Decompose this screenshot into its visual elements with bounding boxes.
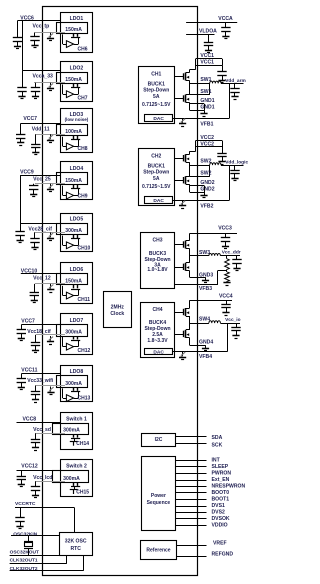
ground arrow row8 xyxy=(50,387,52,392)
svg-text:(low noise): (low noise) xyxy=(65,117,89,122)
output capacitor CH2 xyxy=(234,165,236,170)
svg-text:VCCRTC: VCCRTC xyxy=(15,501,36,507)
svg-text:VFB1: VFB1 xyxy=(200,121,213,127)
high-side FET CH2 xyxy=(174,158,183,160)
svg-text:GND1: GND1 xyxy=(200,98,214,104)
svg-text:Vcc_12: Vcc_12 xyxy=(33,275,51,281)
svg-text:VDDIO: VDDIO xyxy=(212,522,228,528)
pin PWRON xyxy=(176,473,207,475)
svg-text:CH1: CH1 xyxy=(151,72,161,78)
wire Vdd_11 (LDO output) xyxy=(36,134,65,136)
svg-text:VLDOA: VLDOA xyxy=(199,29,217,35)
pin VCCA xyxy=(186,22,237,24)
svg-text:1.0~1.8V: 1.0~1.8V xyxy=(147,267,168,273)
svg-text:0.7125~1.5V: 0.7125~1.5V xyxy=(142,102,171,108)
wire Vcc_sd (LDO output) xyxy=(36,433,66,435)
pin VCC1 b xyxy=(196,65,222,67)
svg-text:VCC8: VCC8 xyxy=(23,416,37,422)
pin VREF xyxy=(176,545,207,547)
wire Vcc_lcd (LDO output) xyxy=(36,481,66,483)
pin REFGND xyxy=(176,556,207,558)
svg-text:Vdd_arm: Vdd_arm xyxy=(225,78,246,84)
svg-text:SW4: SW4 xyxy=(199,316,210,322)
capacitor on VCC11 xyxy=(21,374,23,379)
svg-text:CH8: CH8 xyxy=(78,146,88,152)
2MHz Clock box xyxy=(104,292,132,328)
feedback divider R2 CH3 xyxy=(226,269,228,272)
pin DVS2 xyxy=(176,512,207,514)
svg-text:VCC2: VCC2 xyxy=(200,141,214,147)
low-side FET CH1 xyxy=(174,98,183,100)
capacitor on Vcc33_wifi xyxy=(35,386,37,392)
svg-text:300mA: 300mA xyxy=(63,428,80,434)
svg-text:100mA: 100mA xyxy=(65,129,82,135)
ground arrow VFB4 xyxy=(182,352,184,357)
svg-text:BUCK3: BUCK3 xyxy=(149,251,166,257)
svg-text:DVSOK: DVSOK xyxy=(212,516,230,522)
wire VCC10 xyxy=(21,273,60,275)
svg-text:LDO6: LDO6 xyxy=(70,267,84,273)
svg-text:INT: INT xyxy=(212,457,221,463)
svg-text:300mA: 300mA xyxy=(65,381,82,387)
svg-text:Vcc_io: Vcc_io xyxy=(225,317,241,323)
svg-text:Sequence: Sequence xyxy=(147,500,171,506)
ground of divider CH3 xyxy=(226,281,228,283)
pin SW2 a xyxy=(190,165,210,167)
svg-text:VCC9: VCC9 xyxy=(20,170,34,176)
capacitor on Vdd_11 xyxy=(35,134,37,144)
DAC box CH4 xyxy=(145,349,173,355)
Reference box xyxy=(141,541,177,560)
buck CH4 block xyxy=(141,303,175,358)
svg-text:VCC1: VCC1 xyxy=(200,60,214,66)
svg-text:SW1: SW1 xyxy=(200,89,211,95)
svg-text:Ext_EN: Ext_EN xyxy=(212,477,230,483)
wire VCC6 xyxy=(18,20,61,22)
LDO LDO6 block CH11 xyxy=(61,263,93,304)
pin VFB4 xyxy=(173,351,228,353)
buck CH3 block xyxy=(141,233,175,289)
capacitor on VCCA xyxy=(225,23,227,28)
svg-text:BOOT0: BOOT0 xyxy=(212,490,230,496)
pin SW1 b xyxy=(190,94,210,96)
chip boundary xyxy=(43,7,198,576)
pin SW4 xyxy=(190,323,209,325)
svg-text:300mA: 300mA xyxy=(63,476,80,482)
pin GND1 a xyxy=(190,103,204,105)
LDO LDO1 block CH6 xyxy=(61,13,93,53)
svg-text:5A: 5A xyxy=(153,176,160,182)
wire VCC6 branch to LDO2 xyxy=(23,70,60,72)
ground arrow VFB1 xyxy=(182,118,184,123)
pin VCC1 a xyxy=(196,58,222,60)
ground arrow row7 xyxy=(50,336,52,341)
svg-text:DVS1: DVS1 xyxy=(212,503,225,509)
LDO LDO4 block CH9 xyxy=(61,162,93,200)
output capacitor CH1 xyxy=(234,83,236,88)
wire Vcc33_wifi (LDO output) xyxy=(36,385,66,387)
capacitor on VCC7 xyxy=(20,123,22,134)
VCC internal wiring CH2 xyxy=(189,151,191,154)
svg-text:GND2: GND2 xyxy=(200,180,214,186)
capacitor on Vcc_tp xyxy=(34,33,36,37)
pin GND2 a xyxy=(190,185,204,187)
svg-text:CH10: CH10 xyxy=(78,246,91,252)
capacitor on VLDOA xyxy=(208,34,210,42)
svg-text:LDO8: LDO8 xyxy=(70,369,84,375)
wire VCC8 xyxy=(17,422,61,424)
GND internal wiring CH1 xyxy=(189,103,191,111)
svg-text:GND3: GND3 xyxy=(199,272,213,278)
low-side FET CH4 xyxy=(174,334,183,336)
pin SW3 xyxy=(190,255,209,257)
inductor L1 xyxy=(210,81,221,83)
pin SDA xyxy=(176,436,207,438)
pin VCC4 xyxy=(190,300,232,302)
capacitor on Vcc_lcd xyxy=(35,481,37,486)
GND internal wiring CH2 xyxy=(189,184,191,192)
wire VCC9 branch to LDO5 xyxy=(20,223,60,225)
svg-text:Switch 1: Switch 1 xyxy=(66,417,87,423)
ground arrow row2 xyxy=(50,83,52,88)
pin Ext_EN xyxy=(176,480,207,482)
wire Vcc28_cif (LDO output) xyxy=(34,232,65,234)
capacitor on VCC3 xyxy=(225,233,227,237)
svg-text:BOOT1: BOOT1 xyxy=(212,496,230,502)
Switch 2 block CH15 xyxy=(61,460,93,497)
svg-text:32K OSC: 32K OSC xyxy=(65,539,87,545)
feedback divider R1 CH3 xyxy=(226,256,228,259)
svg-text:LDO1: LDO1 xyxy=(70,16,84,22)
wire Vcc_25 (LDO output) xyxy=(35,183,65,185)
svg-text:VFB4: VFB4 xyxy=(199,354,212,360)
svg-text:LDO7: LDO7 xyxy=(70,318,84,324)
svg-text:5A: 5A xyxy=(153,94,160,100)
LDO LDO7 block CH12 xyxy=(61,314,93,355)
svg-text:VCCA: VCCA xyxy=(218,16,233,22)
pin VFB3 xyxy=(218,270,227,272)
inductor L4 xyxy=(209,321,221,323)
wire VCC9 xyxy=(20,175,60,177)
capacitor on VCC4 xyxy=(226,300,228,304)
svg-text:CH12: CH12 xyxy=(78,348,91,354)
ground GND1 xyxy=(204,104,206,111)
pin DVS1 xyxy=(176,506,207,508)
VCC internal wiring CH1 xyxy=(189,70,191,73)
wire VCC12 xyxy=(17,470,61,472)
inductor L2 xyxy=(210,163,221,165)
svg-text:Vcc28_cif: Vcc28_cif xyxy=(28,226,52,232)
svg-text:CH15: CH15 xyxy=(76,490,89,496)
ground arrow row3 xyxy=(50,134,52,139)
pin NRESPWRON xyxy=(176,486,207,488)
DAC box CH1 xyxy=(145,115,173,122)
svg-text:Vcc_lcd: Vcc_lcd xyxy=(33,475,52,481)
DAC box CH2 xyxy=(145,197,173,204)
pin SW2 b xyxy=(190,176,210,178)
svg-text:CH13: CH13 xyxy=(78,396,91,402)
svg-text:Switch 2: Switch 2 xyxy=(66,464,87,470)
pin VCC2 a xyxy=(196,140,222,142)
ground GND2 xyxy=(204,186,206,193)
pin SCK xyxy=(176,443,207,445)
32K OSC RTC box xyxy=(60,533,93,556)
svg-text:CH4: CH4 xyxy=(152,307,162,313)
svg-text:RTC: RTC xyxy=(70,546,81,552)
svg-text:1.8~3.3V: 1.8~3.3V xyxy=(147,338,168,344)
wire VCC11 xyxy=(21,373,60,375)
wire Vcca_33 (LDO output) xyxy=(34,82,65,84)
svg-text:SLEEP: SLEEP xyxy=(212,464,229,470)
pin VCC2 b xyxy=(196,146,222,148)
buck CH1 block xyxy=(139,67,175,124)
high-side FET CH3 xyxy=(174,244,183,246)
svg-text:SDA: SDA xyxy=(212,435,223,441)
svg-text:LDO5: LDO5 xyxy=(70,217,84,223)
svg-text:DAC: DAC xyxy=(153,349,164,355)
svg-text:150mA: 150mA xyxy=(65,27,82,33)
svg-text:CH2: CH2 xyxy=(151,154,161,160)
pin BOOT1 xyxy=(176,499,207,501)
capacitor on Vcc18_cif xyxy=(35,335,37,342)
pin SLEEP xyxy=(176,466,207,468)
svg-text:Vcc_tp: Vcc_tp xyxy=(33,23,50,29)
capacitor row2 a xyxy=(22,71,24,88)
svg-text:VREF: VREF xyxy=(213,540,227,546)
svg-text:CH14: CH14 xyxy=(76,441,89,447)
high-side FET CH1 xyxy=(174,76,183,78)
pin INT xyxy=(176,460,207,462)
wire VCC6 feed to LDO2 xyxy=(22,21,24,71)
svg-text:Vcc_sd: Vcc_sd xyxy=(33,427,51,433)
wire Vcc18_cif (LDO output) xyxy=(36,334,66,336)
svg-text:150mA: 150mA xyxy=(65,178,82,184)
svg-text:Step-Down: Step-Down xyxy=(143,88,169,94)
svg-text:Vcca_33: Vcca_33 xyxy=(33,74,54,80)
capacitor on VCCRTC xyxy=(20,508,22,518)
svg-text:VCC7: VCC7 xyxy=(21,319,35,325)
svg-text:LDO4: LDO4 xyxy=(70,166,84,172)
svg-text:PWRON: PWRON xyxy=(212,470,232,476)
svg-text:GND2: GND2 xyxy=(200,186,214,192)
pin VFB1 xyxy=(173,118,230,120)
high-side FET CH4 xyxy=(174,312,183,314)
svg-text:BUCK1: BUCK1 xyxy=(148,163,165,169)
wire VCC7 xyxy=(21,123,60,125)
svg-text:VCC7: VCC7 xyxy=(23,116,37,122)
svg-text:VFB2: VFB2 xyxy=(200,203,213,209)
low-side FET CH3 xyxy=(174,267,183,269)
wire VCC7 xyxy=(21,324,60,326)
svg-text:SW2: SW2 xyxy=(200,171,211,177)
ground arrow row5 xyxy=(50,233,52,238)
svg-text:Reference: Reference xyxy=(146,548,170,554)
svg-text:Vdd_logic: Vdd_logic xyxy=(225,160,248,166)
svg-text:VCC2: VCC2 xyxy=(200,135,214,141)
buck CH2 block xyxy=(139,149,175,206)
capacitor on VCC7 row7 xyxy=(21,325,23,330)
svg-text:CH3: CH3 xyxy=(152,237,162,243)
LDO LDO2 block CH7 xyxy=(61,62,93,102)
svg-text:REFGND: REFGND xyxy=(212,551,234,557)
SW internal wiring CH1 xyxy=(189,81,191,95)
low-side FET CH2 xyxy=(174,180,183,182)
svg-text:CH11: CH11 xyxy=(78,297,91,303)
capacitor on VCC1 xyxy=(222,59,224,66)
pin VDDIO xyxy=(176,525,207,527)
capacitor on Vcc_12 xyxy=(34,284,36,292)
svg-text:Power: Power xyxy=(151,493,166,499)
svg-text:150mA: 150mA xyxy=(65,278,82,284)
pin GND3 xyxy=(189,271,191,277)
wire Vcc_12 (LDO output) xyxy=(35,283,65,285)
SW internal wiring CH2 xyxy=(189,162,191,176)
Switch 1 block CH14 xyxy=(61,413,93,450)
svg-text:GND4: GND4 xyxy=(199,340,213,346)
svg-text:2MHz: 2MHz xyxy=(111,305,125,311)
svg-text:LDO2: LDO2 xyxy=(70,66,84,72)
crystal X1 xyxy=(24,541,33,543)
pin GND2 b xyxy=(190,192,204,194)
svg-text:VCC1: VCC1 xyxy=(200,53,214,59)
svg-text:VCC4: VCC4 xyxy=(219,294,233,300)
svg-text:VCC3: VCC3 xyxy=(218,225,232,231)
svg-text:I2C: I2C xyxy=(155,437,163,443)
ground arrow VFB2 xyxy=(182,200,184,205)
svg-text:Step-Down: Step-Down xyxy=(143,170,169,176)
svg-text:VFB3: VFB3 xyxy=(199,286,212,292)
svg-text:GND1: GND1 xyxy=(200,105,214,111)
output capacitor CH4 xyxy=(236,323,238,327)
LDO LDO3 block CH8 xyxy=(61,109,93,153)
wire Vcc_tp (LDO output) xyxy=(34,32,65,34)
svg-text:Vcc_25: Vcc_25 xyxy=(33,177,51,183)
capacitor on Vcc_25 xyxy=(33,184,35,186)
LDO LDO8 block CH13 xyxy=(61,366,93,402)
svg-text:DVS2: DVS2 xyxy=(212,509,225,515)
svg-text:SCK: SCK xyxy=(212,442,223,448)
svg-text:DAC: DAC xyxy=(153,198,164,204)
svg-text:0.7125~1.5V: 0.7125~1.5V xyxy=(142,184,171,190)
LDO LDO5 block CH10 xyxy=(61,214,93,252)
svg-text:300mA: 300mA xyxy=(65,228,82,234)
pin VLDOA xyxy=(186,34,214,36)
capacitor row5 a xyxy=(20,223,22,231)
Power Sequence box xyxy=(142,457,176,531)
pin GND4 xyxy=(189,338,191,345)
ground arrow row1 xyxy=(50,33,52,38)
svg-text:VCC11: VCC11 xyxy=(21,368,37,374)
svg-text:CLK32OUT1: CLK32OUT1 xyxy=(10,557,38,563)
capacitor on VCC6 xyxy=(17,21,19,38)
pin SW1 a xyxy=(190,83,210,85)
svg-text:NRESPWRON: NRESPWRON xyxy=(212,483,246,489)
svg-text:CH6: CH6 xyxy=(78,46,88,52)
ground arrow row4 xyxy=(50,184,52,189)
capacitor on Vcc_sd xyxy=(35,433,37,439)
I2C box xyxy=(142,434,176,447)
svg-text:Vcc33_wifi: Vcc33_wifi xyxy=(27,378,54,384)
svg-text:Vdd_11: Vdd_11 xyxy=(32,126,50,132)
ground arrow row6 xyxy=(50,284,52,289)
svg-text:DAC: DAC xyxy=(153,116,164,122)
svg-text:OSC32KIN: OSC32KIN xyxy=(13,532,38,538)
capacitor on Vcca_33 xyxy=(35,83,37,88)
svg-text:Clock: Clock xyxy=(110,311,124,317)
capacitor on Vcc28_cif xyxy=(34,233,36,239)
pin GND1 b xyxy=(190,110,204,112)
svg-text:150mA: 150mA xyxy=(65,77,82,83)
svg-text:OSC32KOUT: OSC32KOUT xyxy=(10,549,39,555)
svg-text:CLK32OUT2: CLK32OUT2 xyxy=(10,566,38,572)
capacitor on VCC12 xyxy=(21,470,23,476)
wire VCC9 feed to LDO5 xyxy=(20,176,22,224)
svg-text:VCC12: VCC12 xyxy=(21,464,38,470)
svg-text:CH9: CH9 xyxy=(78,194,88,200)
svg-text:BUCK4: BUCK4 xyxy=(149,320,166,326)
SW3 wiring xyxy=(189,249,191,263)
svg-text:Vcc_ddr: Vcc_ddr xyxy=(222,249,241,255)
pin BOOT0 xyxy=(176,492,207,494)
pin DVSOK xyxy=(176,518,207,520)
svg-text:BUCK1: BUCK1 xyxy=(148,81,165,87)
capacitor on VCC2 xyxy=(222,141,224,148)
pin VFB2 xyxy=(173,200,230,202)
svg-text:300mA: 300mA xyxy=(65,329,82,335)
svg-text:CH7: CH7 xyxy=(78,95,88,101)
output capacitor CH3 xyxy=(236,256,238,260)
pin VCC3 xyxy=(190,233,237,235)
SW4 wiring xyxy=(189,316,191,330)
inductor L3 xyxy=(209,253,221,255)
